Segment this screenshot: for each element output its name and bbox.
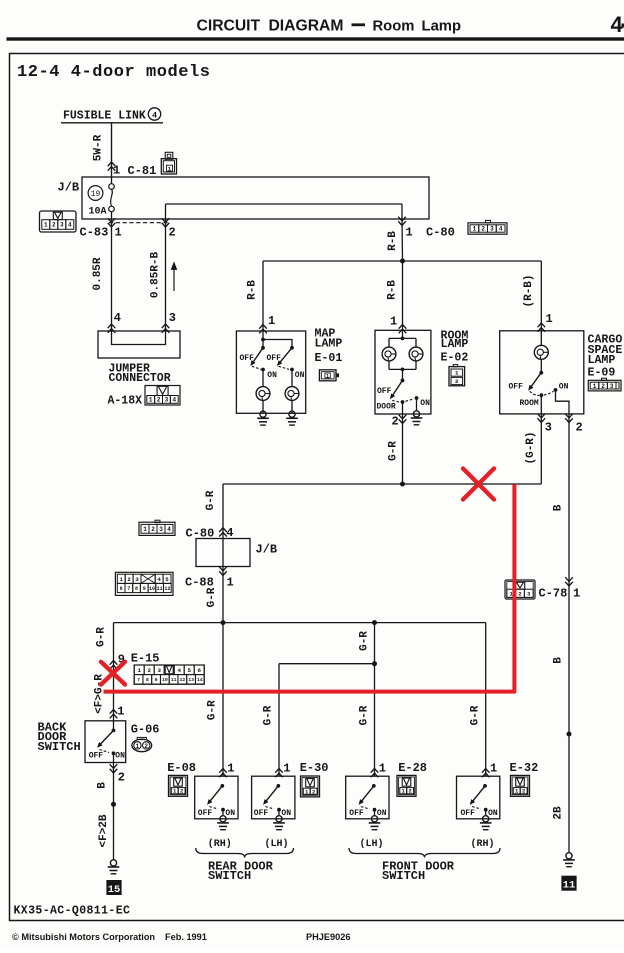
svg-text:2: 2: [52, 222, 56, 229]
svg-text:A-18X: A-18X: [108, 395, 143, 408]
svg-text:1: 1: [573, 587, 580, 601]
svg-text:4: 4: [157, 576, 161, 583]
svg-text:9: 9: [143, 586, 146, 592]
svg-text:C-78: C-78: [539, 587, 568, 601]
svg-text:2: 2: [147, 667, 151, 674]
svg-text:2: 2: [481, 226, 485, 233]
svg-text:2: 2: [127, 576, 131, 583]
svg-text:ON: ON: [281, 809, 291, 818]
svg-text:ON: ON: [559, 382, 569, 391]
svg-text:2: 2: [522, 788, 525, 795]
svg-text:2: 2: [312, 788, 315, 795]
svg-text:4: 4: [114, 311, 121, 325]
svg-text:ON: ON: [115, 751, 125, 760]
svg-text:ON: ON: [295, 371, 305, 380]
svg-text:2: 2: [518, 590, 521, 597]
svg-text:8: 8: [146, 677, 149, 683]
svg-text:R-B: R-B: [387, 280, 399, 300]
svg-text:3: 3: [169, 311, 176, 325]
svg-text:1: 1: [227, 762, 234, 776]
svg-text:3: 3: [490, 226, 494, 233]
svg-text:G-R: G-R: [469, 705, 481, 725]
svg-text:1: 1: [379, 762, 386, 776]
svg-text:Feb. 1991: Feb. 1991: [165, 932, 207, 942]
svg-text:1: 1: [283, 762, 290, 776]
svg-text:B: B: [552, 504, 564, 511]
svg-text:E-30: E-30: [300, 761, 329, 775]
svg-text:10: 10: [162, 677, 168, 683]
svg-text:4: 4: [68, 222, 72, 229]
svg-text:2: 2: [180, 788, 183, 795]
svg-text:OFF: OFF: [267, 354, 282, 363]
svg-text:2: 2: [144, 743, 148, 750]
svg-text:1: 1: [149, 397, 153, 404]
svg-text:1: 1: [137, 667, 141, 674]
svg-text:11: 11: [157, 586, 163, 592]
svg-text:2: 2: [392, 415, 399, 429]
svg-text:C-81: C-81: [128, 164, 157, 178]
svg-text:E-01: E-01: [315, 352, 343, 365]
svg-text:10: 10: [149, 586, 155, 592]
svg-text:2: 2: [169, 226, 176, 240]
svg-text:2: 2: [157, 397, 161, 404]
svg-text:1: 1: [268, 314, 275, 328]
svg-text:<F>2B: <F>2B: [98, 814, 110, 847]
svg-text:5: 5: [187, 667, 191, 674]
svg-text:1: 1: [136, 743, 140, 750]
svg-text:© Mitsubishi Motors Corporatio: © Mitsubishi Motors Corporation: [12, 932, 155, 942]
svg-text:J/B: J/B: [58, 181, 80, 195]
svg-text:1: 1: [490, 762, 497, 776]
svg-text:(RH): (RH): [471, 838, 495, 850]
svg-text:C-80: C-80: [426, 226, 455, 240]
svg-text:3: 3: [545, 421, 552, 435]
svg-text:4: 4: [172, 397, 176, 404]
svg-text:PHJE9026: PHJE9026: [306, 932, 350, 942]
svg-text:B: B: [96, 782, 108, 789]
svg-text:ON: ON: [267, 371, 277, 380]
svg-text:7: 7: [127, 586, 130, 592]
svg-text:OFF: OFF: [509, 382, 524, 391]
svg-text:Room Lamp: Room Lamp: [373, 19, 462, 35]
svg-text:7: 7: [137, 677, 140, 683]
svg-text:1: 1: [115, 226, 122, 240]
svg-text:1: 1: [326, 373, 329, 379]
svg-text:14: 14: [197, 677, 203, 683]
svg-text:E-09: E-09: [588, 367, 616, 380]
svg-text:G-R: G-R: [387, 441, 399, 461]
svg-text:G-06: G-06: [131, 723, 160, 737]
svg-text:1: 1: [168, 165, 172, 172]
svg-text:3: 3: [610, 383, 614, 390]
svg-text:OFF: OFF: [240, 354, 255, 363]
svg-text:15: 15: [108, 884, 121, 896]
svg-text:1: 1: [546, 312, 553, 326]
svg-text:4: 4: [152, 110, 157, 120]
svg-text:LAMP: LAMP: [441, 338, 469, 351]
svg-text:E-32: E-32: [510, 761, 539, 775]
svg-text:1: 1: [473, 226, 477, 233]
svg-text:4: 4: [167, 526, 171, 533]
svg-text:SWITCH: SWITCH: [208, 869, 251, 883]
svg-text:R-B: R-B: [387, 231, 399, 251]
svg-text:1: 1: [227, 576, 234, 590]
svg-text:11: 11: [171, 677, 177, 683]
svg-text:12: 12: [179, 677, 185, 683]
svg-text:(LH): (LH): [265, 838, 289, 850]
svg-text:G-R: G-R: [206, 587, 218, 607]
svg-text:SWITCH: SWITCH: [382, 869, 425, 883]
svg-text:1: 1: [406, 226, 413, 240]
svg-text:9: 9: [155, 677, 158, 683]
svg-text:OFF: OFF: [461, 809, 476, 818]
svg-text:1: 1: [390, 315, 397, 329]
svg-text:1: 1: [143, 526, 147, 533]
svg-text:E-28: E-28: [398, 761, 427, 775]
svg-text:OFF: OFF: [198, 809, 213, 818]
svg-text:1: 1: [120, 576, 124, 583]
svg-text:C-88: C-88: [185, 576, 214, 590]
svg-text:2: 2: [151, 526, 155, 533]
svg-text:2: 2: [409, 788, 412, 795]
svg-text:(G-R): (G-R): [525, 431, 537, 464]
svg-text:2B: 2B: [552, 806, 564, 820]
svg-text:G-R: G-R: [205, 490, 217, 510]
svg-text:2: 2: [455, 378, 459, 385]
svg-text:0.85R-B: 0.85R-B: [150, 252, 162, 299]
svg-text:2: 2: [601, 383, 605, 390]
svg-text:ON: ON: [488, 809, 498, 818]
svg-text:1: 1: [455, 370, 459, 377]
svg-text:G-R: G-R: [262, 705, 274, 725]
svg-text:4: 4: [177, 667, 181, 674]
svg-text:J/B: J/B: [256, 543, 278, 557]
svg-text:4: 4: [499, 226, 503, 233]
svg-text:ROOM: ROOM: [520, 399, 539, 408]
svg-text:DOOR: DOOR: [377, 403, 396, 412]
svg-text:0.85R: 0.85R: [92, 257, 104, 290]
svg-text:E-08: E-08: [167, 761, 196, 775]
svg-text:(R-B): (R-B): [523, 274, 535, 307]
svg-text:B: B: [552, 657, 564, 664]
svg-text:12-4 4-door models: 12-4 4-door models: [17, 63, 211, 82]
svg-text:E-15: E-15: [131, 652, 160, 666]
svg-text:OFF: OFF: [254, 809, 269, 818]
svg-text:6: 6: [120, 586, 123, 592]
svg-text:KX35-AC-Q0811-EC: KX35-AC-Q0811-EC: [14, 905, 131, 918]
svg-text:1: 1: [113, 164, 120, 178]
svg-text:8: 8: [135, 586, 138, 592]
svg-text:C-83: C-83: [80, 226, 109, 240]
svg-text:13: 13: [188, 677, 194, 683]
svg-text:ON: ON: [225, 809, 235, 818]
svg-text:4: 4: [226, 526, 233, 540]
svg-text:(RH): (RH): [208, 838, 232, 850]
svg-text:5: 5: [165, 576, 169, 583]
svg-text:G-R: G-R: [206, 700, 218, 720]
svg-text:ON: ON: [420, 399, 430, 408]
svg-text:5W-R: 5W-R: [92, 134, 104, 161]
svg-text:LAMP: LAMP: [588, 354, 616, 367]
svg-text:FUSIBLE LINK: FUSIBLE LINK: [63, 110, 146, 123]
svg-text:ON: ON: [377, 809, 387, 818]
svg-text:OFF: OFF: [89, 751, 104, 760]
svg-text:LAMP: LAMP: [315, 338, 343, 351]
svg-text:G-R: G-R: [358, 631, 370, 651]
svg-text:3: 3: [135, 576, 139, 583]
svg-text:(LH): (LH): [360, 838, 384, 850]
svg-text:1: 1: [593, 383, 597, 390]
svg-text:OFF: OFF: [377, 387, 392, 396]
svg-text:1: 1: [117, 705, 124, 719]
svg-text:E-02: E-02: [441, 352, 469, 365]
svg-text:19: 19: [91, 190, 101, 199]
svg-text:3: 3: [60, 222, 64, 229]
svg-text:11: 11: [563, 880, 576, 892]
svg-text:2: 2: [576, 421, 583, 435]
svg-text:CIRCUIT DIAGRAM: CIRCUIT DIAGRAM: [197, 18, 344, 35]
svg-text:R-B: R-B: [247, 280, 259, 300]
svg-text:10A: 10A: [89, 207, 107, 218]
svg-text:2: 2: [118, 771, 125, 785]
svg-text:G-R: G-R: [358, 705, 370, 725]
svg-text:3: 3: [157, 667, 161, 674]
svg-text:1: 1: [44, 222, 48, 229]
svg-text:OFF: OFF: [349, 809, 364, 818]
svg-text:G-R: G-R: [95, 627, 107, 647]
svg-text:6: 6: [197, 667, 201, 674]
svg-text:SWITCH: SWITCH: [38, 740, 81, 754]
svg-text:12: 12: [164, 586, 170, 592]
svg-text:3: 3: [165, 397, 169, 404]
svg-text:CONNECTOR: CONNECTOR: [109, 372, 171, 385]
svg-text:3: 3: [159, 526, 163, 533]
